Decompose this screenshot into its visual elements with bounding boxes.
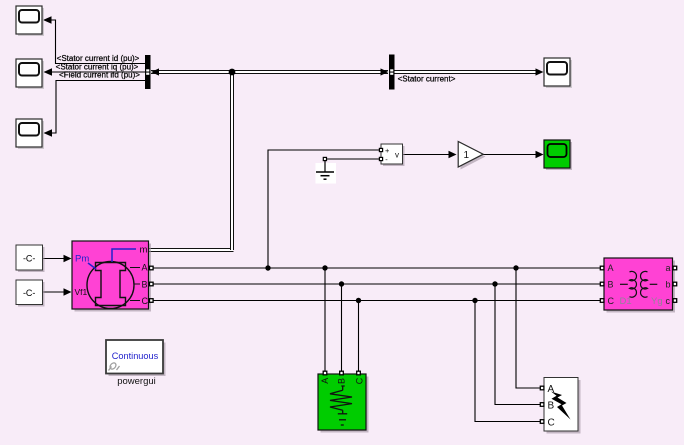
svg-text:<Field current ifd (pu)>: <Field current ifd (pu)> [59, 71, 140, 80]
svg-text:C: C [142, 296, 149, 306]
svg-text:Yg: Yg [651, 296, 663, 307]
svg-text:-C-: -C- [23, 254, 36, 264]
svg-text:B: B [548, 401, 555, 412]
svg-text:b: b [666, 280, 671, 290]
svg-text:+: + [385, 146, 390, 155]
svg-text:c: c [666, 296, 671, 306]
svg-text:-C-: -C- [23, 288, 36, 298]
svg-text:v: v [395, 151, 399, 160]
svg-text:Pm: Pm [75, 254, 89, 265]
svg-text:a: a [666, 263, 671, 273]
svg-text:<Stator current>: <Stator current> [398, 75, 456, 84]
svg-text:A: A [320, 378, 330, 384]
svg-text:C: C [608, 296, 615, 306]
svg-text:A: A [608, 263, 614, 273]
svg-text:Continuous: Continuous [112, 351, 159, 361]
svg-text:Vf1: Vf1 [75, 287, 88, 297]
svg-text:A: A [142, 263, 148, 273]
svg-text:m: m [140, 245, 148, 256]
svg-text:powergui: powergui [117, 376, 156, 387]
svg-text:C: C [354, 377, 364, 384]
svg-text:B: B [142, 280, 148, 290]
svg-text:B: B [337, 378, 347, 384]
svg-text:C: C [548, 418, 555, 429]
svg-text:1: 1 [464, 150, 470, 161]
svg-text:D1: D1 [620, 296, 632, 307]
svg-text:B: B [608, 280, 614, 290]
